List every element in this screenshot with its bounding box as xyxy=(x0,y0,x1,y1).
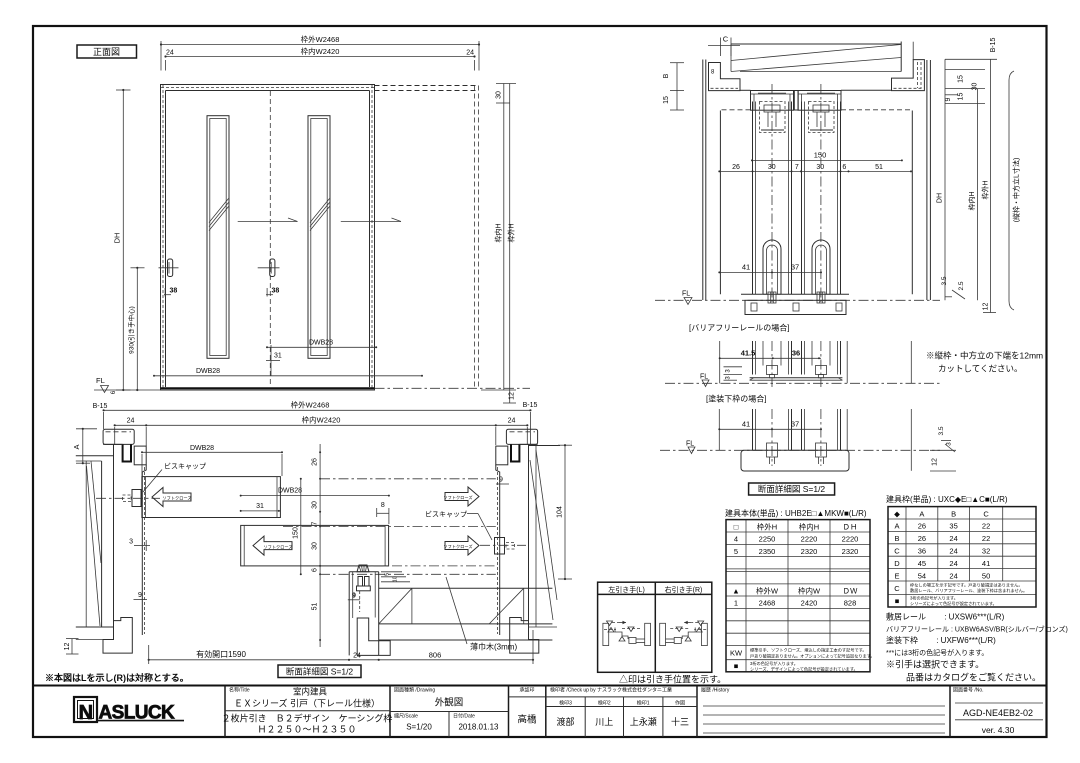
svg-text:41: 41 xyxy=(742,263,750,272)
svg-text:△印は引き手位置を示す。: △印は引き手位置を示す。 xyxy=(619,674,726,685)
svg-text:2320: 2320 xyxy=(801,547,818,556)
svg-text:枠外H: 枠外H xyxy=(757,521,777,531)
svg-text:十三: 十三 xyxy=(671,716,689,727)
svg-text:24: 24 xyxy=(466,50,474,57)
svg-text:51: 51 xyxy=(311,603,318,611)
svg-text:9: 9 xyxy=(352,593,356,600)
svg-text:FL: FL xyxy=(686,441,694,448)
svg-text:2220: 2220 xyxy=(801,535,818,544)
svg-text:DWB28: DWB28 xyxy=(309,340,333,347)
svg-text:枠外W2468: 枠外W2468 xyxy=(291,400,330,410)
svg-text:枠外W: 枠外W xyxy=(756,586,779,596)
svg-text:31: 31 xyxy=(274,353,282,360)
svg-text:12: 12 xyxy=(64,643,71,651)
svg-text:A: A xyxy=(919,509,924,518)
svg-text:高橋: 高橋 xyxy=(517,714,537,726)
svg-text:正面図: 正面図 xyxy=(93,47,120,57)
svg-text:枠内H: 枠内H xyxy=(799,521,819,531)
svg-text:3.5: 3.5 xyxy=(941,276,948,285)
svg-text:24: 24 xyxy=(166,50,174,57)
svg-text:12: 12 xyxy=(932,458,939,466)
svg-text:[バリアフリーレールの場合]: [バリアフリーレールの場合] xyxy=(689,323,789,333)
svg-text:承認印: 承認印 xyxy=(519,687,534,694)
svg-text:枠外H: 枠外H xyxy=(507,223,516,242)
svg-text:枠内W2420: 枠内W2420 xyxy=(301,46,340,56)
svg-text:15: 15 xyxy=(663,96,670,104)
svg-text:1: 1 xyxy=(734,599,738,608)
svg-text:※引手は選択できます。: ※引手は選択できます。 xyxy=(886,659,984,670)
svg-text:B: B xyxy=(894,534,899,543)
svg-text:36: 36 xyxy=(918,547,926,556)
svg-text:□: □ xyxy=(734,522,739,531)
svg-text:■: ■ xyxy=(734,662,739,671)
svg-text:縮尺/Scale: 縮尺/Scale xyxy=(394,713,418,720)
svg-text:E: E xyxy=(894,571,899,580)
svg-text:B-15: B-15 xyxy=(523,402,538,409)
svg-text:8: 8 xyxy=(381,502,385,509)
svg-text:塗装下枠 : UXFW6***(L/R): 塗装下枠 : UXFW6***(L/R) xyxy=(886,635,996,645)
svg-text:FL: FL xyxy=(700,374,708,381)
svg-text:枠外H: 枠外H xyxy=(980,180,989,199)
svg-text:DWB28: DWB28 xyxy=(278,488,302,495)
svg-text:■: ■ xyxy=(895,597,900,606)
svg-text:Ｈ２２５０～Ｈ２３５０: Ｈ２２５０～Ｈ２３５０ xyxy=(257,725,356,735)
svg-text:806: 806 xyxy=(429,651,442,660)
svg-text:ビスキャップ: ビスキャップ xyxy=(425,510,467,519)
svg-text:ＤＨ: ＤＨ xyxy=(843,522,858,531)
svg-text:36: 36 xyxy=(792,349,800,358)
svg-text:ＤＷ: ＤＷ xyxy=(843,587,858,596)
svg-text:45: 45 xyxy=(918,559,926,568)
svg-text:C: C xyxy=(983,509,989,518)
svg-text:2220: 2220 xyxy=(842,535,859,544)
svg-text:川上: 川上 xyxy=(595,717,613,727)
svg-text:24: 24 xyxy=(353,653,361,660)
svg-text:バリアフリーレール : UXBW6ASV/BR(シルバー/ブ: バリアフリーレール : UXBW6ASV/BR(シルバー/ブロンズ) xyxy=(886,625,1068,634)
svg-text:24: 24 xyxy=(127,417,135,424)
svg-text:図面種類 /Drawing: 図面種類 /Drawing xyxy=(394,687,435,694)
svg-text:104: 104 xyxy=(557,506,564,518)
svg-text:断面詳細図 S=1/2: 断面詳細図 S=1/2 xyxy=(758,484,826,494)
svg-text:戸あり破損定ありません。オプションによって記号追加なります。: 戸あり破損定ありません。オプションによって記号追加なります。 xyxy=(750,653,875,660)
svg-text:38: 38 xyxy=(272,288,280,295)
svg-text:C: C xyxy=(723,35,729,44)
svg-text:24: 24 xyxy=(949,571,957,580)
svg-text:41: 41 xyxy=(982,559,990,568)
svg-text:A: A xyxy=(894,522,899,531)
svg-text:2350: 2350 xyxy=(759,547,776,556)
svg-text:3: 3 xyxy=(129,539,133,546)
svg-text:22: 22 xyxy=(982,522,990,531)
svg-text:26: 26 xyxy=(918,534,926,543)
svg-text:検印2: 検印2 xyxy=(598,700,611,707)
svg-text:26: 26 xyxy=(732,164,740,171)
svg-text:枠外W2468: 枠外W2468 xyxy=(301,34,340,44)
svg-text:左引き手(L): 左引き手(L) xyxy=(608,585,645,594)
svg-text:※本図はLを示し(R)は対称とする。: ※本図はLを示し(R)は対称とする。 xyxy=(45,672,189,683)
svg-text:7: 7 xyxy=(311,521,318,525)
svg-text:30: 30 xyxy=(311,501,318,509)
svg-text:5: 5 xyxy=(734,547,738,556)
svg-text:FL: FL xyxy=(682,291,690,298)
svg-text:41: 41 xyxy=(742,420,750,429)
svg-text:2320: 2320 xyxy=(842,547,859,556)
svg-text:標準引手、ソフトクローズ、埋込しの指定工本のす記号です。: 標準引手、ソフトクローズ、埋込しの指定工本のす記号です。 xyxy=(750,647,867,654)
svg-text:作図: 作図 xyxy=(675,700,685,707)
svg-text:30: 30 xyxy=(768,164,776,171)
svg-text:7: 7 xyxy=(795,164,799,171)
svg-text:右引き手(R): 右引き手(R) xyxy=(665,585,703,594)
svg-text:9: 9 xyxy=(138,592,142,599)
svg-text:日付/Date: 日付/Date xyxy=(453,713,475,720)
svg-text:150: 150 xyxy=(292,527,299,539)
svg-text:外観図: 外観図 xyxy=(435,697,464,709)
svg-text:品番はカタログをご覧ください。: 品番はカタログをご覧ください。 xyxy=(906,672,1041,683)
svg-text:2.5: 2.5 xyxy=(958,281,965,290)
svg-text:[塗装下枠の場合]: [塗装下枠の場合] xyxy=(706,394,766,404)
svg-text:15: 15 xyxy=(958,93,965,101)
svg-text:B-15: B-15 xyxy=(93,403,108,410)
svg-text:枠内H: 枠内H xyxy=(494,223,503,242)
svg-text:26: 26 xyxy=(311,458,318,466)
svg-text:N: N xyxy=(79,702,93,724)
svg-text:S=1/20: S=1/20 xyxy=(406,723,432,732)
svg-text:***には3桁の色記号が入ります。: ***には3桁の色記号が入ります。 xyxy=(886,648,988,657)
svg-text:検印3: 検印3 xyxy=(559,700,572,707)
svg-text:図面番号 /No.: 図面番号 /No. xyxy=(953,687,984,694)
svg-text:AGD-NE4EB2-02: AGD-NE4EB2-02 xyxy=(963,708,1033,718)
svg-text:9: 9 xyxy=(945,97,952,101)
svg-text:ver. 4.30: ver. 4.30 xyxy=(982,725,1015,735)
svg-text:(縦枠・中方立L寸法): (縦枠・中方立L寸法) xyxy=(1012,158,1021,223)
svg-text:30: 30 xyxy=(311,542,318,550)
svg-text:50: 50 xyxy=(982,571,990,580)
svg-text:ＥＸシリーズ 引戸（下レール仕様）: ＥＸシリーズ 引戸（下レール仕様） xyxy=(234,698,380,709)
svg-text:12: 12 xyxy=(509,392,516,400)
svg-text:24: 24 xyxy=(949,559,957,568)
svg-text:断面詳細図 S=1/2: 断面詳細図 S=1/2 xyxy=(286,667,354,677)
svg-text:KW: KW xyxy=(730,649,743,658)
svg-text:検印者 /Check up by ナスラック株式会社ダンタニ: 検印者 /Check up by ナスラック株式会社ダンタニ工業 xyxy=(550,687,672,694)
svg-text:2250: 2250 xyxy=(759,535,776,544)
svg-text:35: 35 xyxy=(949,522,957,531)
svg-text:枠内W: 枠内W xyxy=(798,586,821,596)
svg-text:31: 31 xyxy=(256,503,264,510)
svg-text:22: 22 xyxy=(982,534,990,543)
svg-text:薄巾木(3mm): 薄巾木(3mm) xyxy=(470,642,517,652)
svg-text:30: 30 xyxy=(816,164,824,171)
svg-text:DH: DH xyxy=(113,233,122,244)
svg-text:▲: ▲ xyxy=(732,587,739,596)
svg-text:30: 30 xyxy=(496,91,503,99)
svg-text:FL: FL xyxy=(96,376,105,385)
svg-text:930(引き手中心): 930(引き手中心) xyxy=(127,306,136,354)
svg-text:カットしてください。: カットしてください。 xyxy=(938,364,1023,374)
svg-text:24: 24 xyxy=(949,547,957,556)
svg-text:24: 24 xyxy=(508,417,516,424)
svg-text:C: C xyxy=(894,547,900,556)
svg-text:有効開口1590: 有効開口1590 xyxy=(196,649,246,659)
svg-text:DH: DH xyxy=(937,193,944,203)
svg-text:150: 150 xyxy=(814,151,827,160)
svg-text:12: 12 xyxy=(983,303,990,311)
svg-text:DWB28: DWB28 xyxy=(190,445,214,452)
svg-text:B: B xyxy=(951,509,956,518)
svg-text:54: 54 xyxy=(918,571,926,580)
svg-text:2420: 2420 xyxy=(801,599,818,608)
svg-text:シリーズによって色記号が設定されています。: シリーズによって色記号が設定されています。 xyxy=(910,600,997,607)
svg-text:B-15: B-15 xyxy=(990,38,997,53)
svg-text:上永瀬: 上永瀬 xyxy=(630,716,657,727)
svg-text:5: 5 xyxy=(385,573,391,576)
svg-text:建具枠(単品) : UXC◆E□▲C■(L/R): 建具枠(単品) : UXC◆E□▲C■(L/R) xyxy=(886,494,1008,504)
svg-text:32: 32 xyxy=(982,547,990,556)
svg-text:6: 6 xyxy=(311,568,318,572)
svg-text:履歴 /History: 履歴 /History xyxy=(701,688,730,694)
svg-text:室内建具: 室内建具 xyxy=(293,687,328,697)
svg-text:828: 828 xyxy=(844,599,857,608)
svg-text:B: B xyxy=(663,73,670,78)
svg-text:37: 37 xyxy=(791,263,799,272)
svg-text:41.5: 41.5 xyxy=(741,349,756,358)
svg-text:敷居レール : UXSW6***(L/R): 敷居レール : UXSW6***(L/R) xyxy=(886,612,1005,622)
svg-text:51: 51 xyxy=(875,164,883,171)
svg-text:敷居レール、バリアフリーレール、塗装下枠は含まれません。: 敷居レール、バリアフリーレール、塗装下枠は含まれません。 xyxy=(910,587,1027,594)
svg-text:枠内W2420: 枠内W2420 xyxy=(302,414,341,424)
svg-text:A: A xyxy=(72,444,81,449)
svg-text:10: 10 xyxy=(393,576,399,582)
svg-text:6: 6 xyxy=(842,164,846,171)
svg-text:名称/Title: 名称/Title xyxy=(229,687,250,694)
svg-text:ビスキャップ: ビスキャップ xyxy=(164,462,206,471)
svg-text:２枚片引き Ｂ２デザイン ケーシング枠: ２枚片引き Ｂ２デザイン ケーシング枠 xyxy=(222,713,393,724)
svg-text:ソフトクローズ: ソフトクローズ xyxy=(162,495,191,502)
svg-text:DWB28: DWB28 xyxy=(196,368,220,375)
svg-text:24: 24 xyxy=(949,534,957,543)
svg-text:シリーズ、デザインによって色記号が設定されています。: シリーズ、デザインによって色記号が設定されています。 xyxy=(750,666,858,673)
svg-text:15: 15 xyxy=(958,75,965,83)
svg-text:渡部: 渡部 xyxy=(556,716,574,727)
svg-text:3.5: 3.5 xyxy=(938,426,945,435)
svg-text:38: 38 xyxy=(170,288,178,295)
svg-text:C: C xyxy=(894,584,900,593)
svg-text:2468: 2468 xyxy=(759,599,776,608)
svg-text:検印1: 検印1 xyxy=(637,700,650,707)
svg-text:枠内H: 枠内H xyxy=(967,191,976,210)
svg-text:37: 37 xyxy=(791,420,799,429)
svg-text:ソフトクローズ: ソフトクローズ xyxy=(443,494,472,501)
svg-text:26: 26 xyxy=(918,522,926,531)
svg-text:建具本体(単品) : UHB2E□▲MKW■(L/R): 建具本体(単品) : UHB2E□▲MKW■(L/R) xyxy=(725,508,867,518)
svg-text:※縦枠・中方立の下端を12mm: ※縦枠・中方立の下端を12mm xyxy=(926,351,1043,361)
svg-text:D: D xyxy=(894,559,900,568)
svg-text:2018.01.13: 2018.01.13 xyxy=(458,723,499,732)
svg-text:4: 4 xyxy=(734,535,738,544)
